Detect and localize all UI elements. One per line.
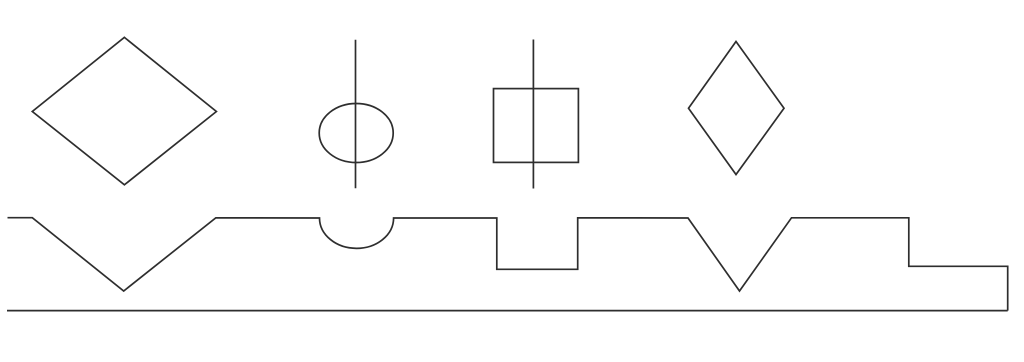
square shape 3: [494, 89, 579, 163]
vertical axis line of shape 3: [532, 40, 534, 189]
wide diamond shape 1: [32, 37, 216, 184]
base line: [7, 310, 1008, 312]
narrow diamond shape 4: [689, 42, 785, 175]
vertical axis line of shape 2: [355, 40, 357, 189]
ellipse shape 2: [319, 104, 393, 163]
surface profile with V notch, half-ellipse notch, rectangular notch, narrow V notch and right step: [8, 218, 1008, 311]
